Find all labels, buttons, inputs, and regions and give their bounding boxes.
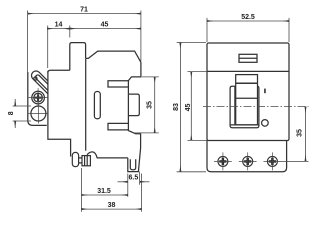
svg-text:35: 35 bbox=[297, 129, 304, 137]
dim 14 bbox=[47, 28, 70, 30]
dim 31.5 bbox=[82, 194, 128, 196]
svg-text:8: 8 bbox=[8, 111, 15, 115]
dim 45 front bbox=[190, 72, 192, 141]
toggle handle bbox=[236, 75, 258, 125]
svg-text:14: 14 bbox=[55, 21, 63, 28]
svg-text:6.5: 6.5 bbox=[129, 174, 139, 181]
panel line bbox=[207, 70, 289, 72]
lower fixing hole bbox=[31, 106, 46, 121]
centerline bbox=[203, 106, 309, 108]
dim 35 front bbox=[305, 107, 307, 162]
bottom terminal tunnel bbox=[108, 123, 128, 129]
dim 83 bbox=[179, 43, 181, 172]
slot vent bbox=[94, 92, 100, 119]
terminal screws bbox=[214, 152, 309, 170]
top terminal tunnel bbox=[108, 81, 128, 87]
dim 52.5 bbox=[207, 20, 289, 22]
clip line and hook bbox=[87, 152, 128, 158]
terminal block bbox=[207, 141, 287, 172]
svg-text:52.5: 52.5 bbox=[241, 14, 255, 21]
mounting plate bbox=[28, 72, 47, 125]
svg-text:45: 45 bbox=[185, 104, 192, 112]
svg-text:35: 35 bbox=[147, 101, 154, 109]
svg-text:83: 83 bbox=[173, 103, 180, 111]
body bbox=[207, 43, 289, 141]
dim 38 bbox=[82, 208, 142, 210]
label window bbox=[239, 54, 257, 62]
dim 35 side bbox=[154, 77, 156, 133]
internal vertical edge (base front) bbox=[85, 58, 87, 150]
dim 71 bbox=[28, 13, 141, 15]
rail clip bolt bbox=[72, 152, 90, 166]
DIN foot notch bbox=[130, 159, 135, 170]
fixing screw (phillips) bbox=[32, 91, 45, 104]
dim 6.5 bbox=[118, 181, 128, 183]
wire: main outline of side profile bbox=[48, 70, 70, 73]
svg-text:45: 45 bbox=[101, 21, 109, 28]
svg-text:71: 71 bbox=[80, 6, 88, 13]
test button bbox=[262, 120, 269, 127]
svg-text:31.5: 31.5 bbox=[97, 188, 111, 195]
dim 8 bbox=[13, 106, 31, 121]
svg-text:38: 38 bbox=[108, 202, 116, 209]
I mark bbox=[264, 89, 266, 94]
dim 45 side bbox=[70, 28, 141, 30]
toggle bezel bbox=[230, 86, 259, 127]
